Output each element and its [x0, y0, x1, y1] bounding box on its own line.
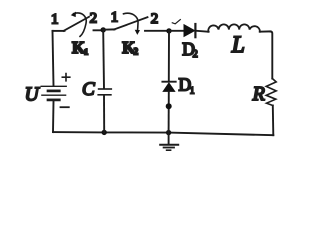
switch K1 blade	[64, 17, 90, 31]
wire bottom rail	[53, 132, 273, 135]
inductor L	[208, 24, 260, 31]
stray tick mark above D2	[172, 20, 180, 24]
svg-text:R: R	[252, 83, 265, 105]
battery U plate short thick bottom	[48, 99, 59, 102]
svg-text:1: 1	[51, 12, 59, 28]
svg-text:2: 2	[193, 49, 198, 60]
battery minus sign	[61, 106, 69, 108]
battery U plate long top	[41, 85, 66, 87]
svg-text:1: 1	[84, 47, 88, 57]
wire K2 contact to node	[145, 30, 169, 32]
battery plus sign	[62, 74, 70, 81]
svg-text:C: C	[82, 79, 95, 100]
wire left rail upper	[53, 31, 54, 86]
node junction dot (top of D1 branch)	[166, 28, 171, 33]
diode D1 branch lower wire	[168, 91, 170, 132]
wire left rail lower	[52, 101, 55, 132]
ground bar middle	[164, 147, 174, 149]
switch K1 swing arc	[74, 13, 87, 36]
wire D2 to inductor	[196, 30, 208, 33]
capacitor C branch upper wire	[102, 30, 105, 89]
node dot mid D1 branch	[166, 103, 172, 109]
switch K2 swing arc	[124, 13, 139, 32]
switch K2 blade	[114, 17, 148, 29]
ground bar wide	[160, 144, 178, 146]
switch K1 arrowhead	[71, 12, 76, 18]
switch K2 arrowhead	[135, 30, 140, 35]
diode D1 triangle	[163, 83, 175, 91]
wire K1 contact to node	[94, 29, 104, 31]
svg-text:1: 1	[190, 86, 195, 96]
diode D2 triangle	[184, 25, 195, 37]
capacitor C top plate	[99, 88, 112, 90]
svg-text:2: 2	[90, 10, 98, 26]
diode D2 cathode bar	[194, 24, 196, 37]
node dot bottom of D1 branch	[166, 130, 171, 135]
capacitor C bottom plate	[98, 94, 111, 96]
battery U plate long	[42, 94, 66, 96]
svg-text:2: 2	[151, 11, 159, 27]
svg-text:2: 2	[134, 46, 139, 56]
node dot bottom of C branch	[102, 130, 107, 135]
wire right rail lower	[272, 106, 275, 136]
resistor R zigzag	[266, 79, 276, 106]
wire right rail upper	[270, 31, 272, 78]
battery U plate short thick	[48, 90, 59, 93]
ground stub wire	[168, 133, 170, 145]
wire node to diode D2	[169, 30, 184, 32]
wire inductor to top right corner	[260, 30, 271, 32]
svg-text:1: 1	[111, 9, 119, 25]
ground bar short	[167, 149, 171, 151]
wire node to K2 pivot	[103, 28, 114, 30]
node junction dot (top of C branch)	[101, 27, 106, 32]
capacitor C branch lower wire	[103, 95, 105, 132]
diode D1 cathode bar	[162, 81, 175, 83]
diode D1 branch upper wire	[168, 31, 170, 81]
wire top rail left segment	[53, 30, 65, 32]
svg-text:U: U	[25, 84, 41, 105]
svg-text:L: L	[231, 32, 245, 58]
